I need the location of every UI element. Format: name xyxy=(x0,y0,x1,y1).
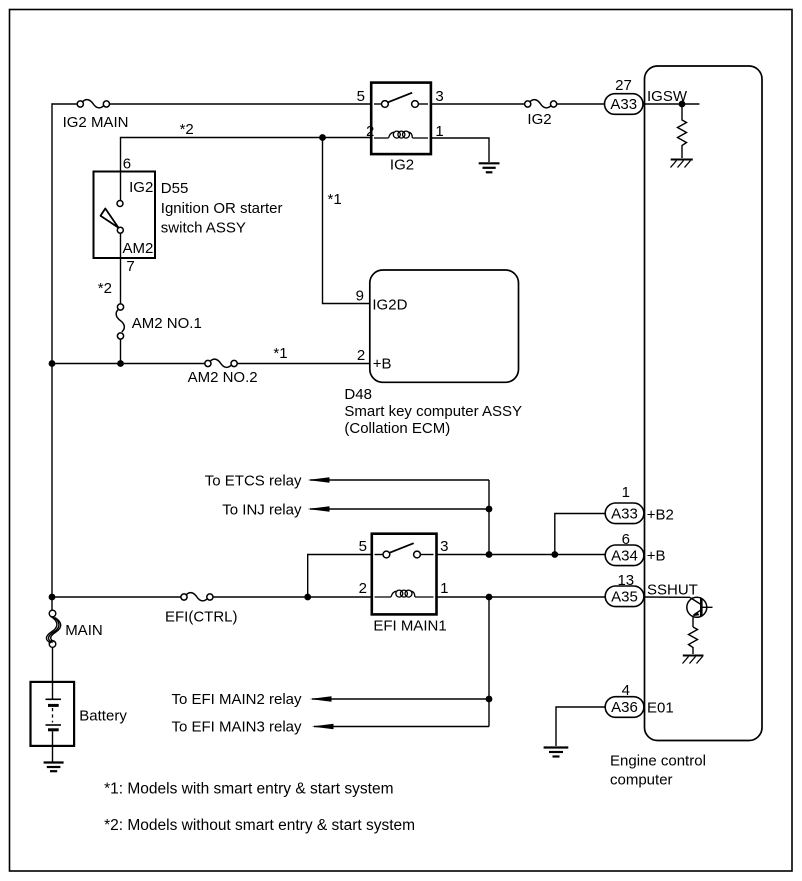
svg-text:AM2 NO.2: AM2 NO.2 xyxy=(188,369,258,386)
relay EFI MAIN1 blade xyxy=(389,543,413,553)
svg-text:*1: Models with smart entry &: *1: Models with smart entry & start syst… xyxy=(104,781,393,798)
wire: A35 to transistor xyxy=(644,596,690,598)
fuse AM2 NO.1 (vertical) xyxy=(116,304,124,339)
svg-text:*1: *1 xyxy=(273,345,287,362)
fuse AM2 NO.2 xyxy=(205,359,237,367)
wire: branch to pin 5 xyxy=(308,555,372,598)
svg-text:IG2: IG2 xyxy=(390,157,414,174)
svg-text:Smart key computer ASSY: Smart key computer ASSY xyxy=(344,403,522,420)
ground (earth) at relay IG2 xyxy=(479,163,500,172)
svg-text:5: 5 xyxy=(359,538,367,555)
svg-text:7: 7 xyxy=(126,258,134,275)
D55 switch contacts xyxy=(120,172,122,201)
svg-text:+B2: +B2 xyxy=(647,506,674,523)
connector A35 (SSHUT) xyxy=(605,586,644,607)
svg-text:A35: A35 xyxy=(611,589,638,606)
wire: vertical ETCS/INJ to pin3 xyxy=(488,480,490,555)
D48 box xyxy=(370,270,519,382)
node: *1 branch dot xyxy=(319,134,326,141)
svg-text:(Collation ECM): (Collation ECM) xyxy=(344,420,450,437)
svg-text:IG2: IG2 xyxy=(129,179,153,196)
battery internals xyxy=(52,682,54,699)
svg-text:To INJ relay: To INJ relay xyxy=(222,501,302,518)
svg-text:computer: computer xyxy=(610,772,673,789)
svg-text:MAIN: MAIN xyxy=(65,622,103,639)
node: pin5 branch xyxy=(304,594,311,601)
wire: EFI(CTRL) bus y=597 xyxy=(52,596,181,598)
wire: D55 pin7 down xyxy=(120,233,122,304)
svg-text:To ETCS relay: To ETCS relay xyxy=(205,472,302,489)
node: bus/EFI junction xyxy=(49,594,56,601)
svg-text:3: 3 xyxy=(435,88,443,105)
wire: relay pin3 to fuse IG2 xyxy=(431,103,525,105)
svg-text:IG2: IG2 xyxy=(527,111,551,128)
node: MAIN2 junction xyxy=(486,696,493,703)
wire: *2 horizontal y=137.5 xyxy=(121,138,372,172)
connector A34 (+B) xyxy=(605,545,644,566)
svg-text:D48: D48 xyxy=(344,386,372,403)
svg-text:9: 9 xyxy=(356,288,364,305)
svg-text:+B: +B xyxy=(373,356,392,373)
relay IG2 switch blade xyxy=(388,93,412,103)
ECU box (Engine control computer) xyxy=(645,66,763,741)
svg-text:1: 1 xyxy=(440,580,448,597)
wire: *1 vertical to D48 pin 9 xyxy=(323,138,370,304)
svg-text:1: 1 xyxy=(622,484,630,501)
fuse IG2 MAIN xyxy=(77,100,109,108)
node: IGSW resistor junction xyxy=(679,101,686,108)
transistor Q (SSHUT driver) xyxy=(687,597,713,617)
relay EFI MAIN1 contacts xyxy=(375,554,384,556)
relay IG2 switch contacts xyxy=(374,103,382,105)
battery box xyxy=(31,682,75,746)
transistor emitter arrow xyxy=(692,612,699,616)
fusible link MAIN xyxy=(46,597,60,647)
svg-text:Battery: Battery xyxy=(79,708,127,725)
svg-text:EFI MAIN1: EFI MAIN1 xyxy=(373,618,446,635)
wire: relay pin1 to ground xyxy=(431,138,489,162)
chassis ground (SSHUT) xyxy=(683,655,704,657)
D55 box xyxy=(94,172,156,259)
node: bus/AM2 junction xyxy=(49,360,56,367)
wire: A36 to ground xyxy=(556,707,605,746)
wire: +B2 branch up to A33 xyxy=(555,514,605,555)
svg-text:+B: +B xyxy=(647,548,666,565)
svg-text:IG2 MAIN: IG2 MAIN xyxy=(63,114,129,131)
relay EFI MAIN1 coil xyxy=(375,590,434,597)
connector A33 (IGSW) xyxy=(605,94,644,115)
connector A36 (E01) xyxy=(605,697,644,718)
node: +B2 branch xyxy=(551,551,558,558)
node: INJ junction xyxy=(486,506,493,513)
node: pin3/vertical junction xyxy=(486,551,493,558)
svg-text:AM2: AM2 xyxy=(122,240,153,257)
svg-text:A36: A36 xyxy=(611,699,638,716)
wire: top bus y=104 left of fuse xyxy=(52,103,77,105)
wire: bus y=363.5 xyxy=(52,363,205,365)
svg-text:3: 3 xyxy=(440,538,448,555)
relay IG2 coil xyxy=(374,131,428,138)
ground (earth) at battery xyxy=(44,763,64,772)
relay IG2 box xyxy=(371,83,431,155)
svg-text:*2: *2 xyxy=(98,280,112,297)
ground (earth) at E01 xyxy=(544,748,569,757)
svg-text:EFI(CTRL): EFI(CTRL) xyxy=(165,609,238,626)
svg-text:D55: D55 xyxy=(161,180,189,197)
svg-text:To EFI MAIN2 relay: To EFI MAIN2 relay xyxy=(171,691,302,708)
wire: pin1 to A35 xyxy=(437,596,606,598)
wire: fuse to connector A33 xyxy=(557,103,605,105)
svg-text:2: 2 xyxy=(366,123,374,140)
wire: fuse to relay pin2 xyxy=(213,596,372,598)
wire: pin3 to A34 xyxy=(437,554,606,556)
svg-text:Engine control: Engine control xyxy=(610,753,706,770)
wire: emitter down xyxy=(692,617,694,627)
node: AM2 NO.1 junction xyxy=(117,360,124,367)
connector A33 (+B2) xyxy=(605,503,644,524)
svg-text:IG2D: IG2D xyxy=(372,297,407,314)
wire: left bus vertical xyxy=(51,103,53,597)
svg-text:E01: E01 xyxy=(647,700,674,717)
svg-text:A34: A34 xyxy=(611,548,638,565)
svg-text:*2: *2 xyxy=(180,121,194,138)
svg-text:A33: A33 xyxy=(610,96,637,113)
wire: top bus y=104 fuse to relay xyxy=(109,103,371,105)
wire: fuse to bus xyxy=(120,339,122,364)
svg-text:A33: A33 xyxy=(611,506,638,523)
wire: fusible link to battery xyxy=(52,647,54,682)
resistor (IGSW pull) xyxy=(678,104,687,158)
svg-text:switch ASSY: switch ASSY xyxy=(161,219,246,236)
svg-text:To EFI MAIN3 relay: To EFI MAIN3 relay xyxy=(171,719,302,736)
svg-text:27: 27 xyxy=(615,77,632,94)
node: MAIN2/3 branch xyxy=(486,594,493,601)
svg-text:*2: Models without smart entry: *2: Models without smart entry & start s… xyxy=(104,817,415,834)
svg-text:2: 2 xyxy=(359,580,367,597)
svg-text:SSHUT: SSHUT xyxy=(647,581,698,598)
chassis ground (IGSW) xyxy=(671,159,693,161)
wire: fuse to D48 +B xyxy=(237,363,370,365)
svg-text:*1: *1 xyxy=(328,191,342,208)
relay EFI MAIN1 box xyxy=(372,534,437,615)
svg-text:5: 5 xyxy=(357,88,365,105)
fuse EFI(CTRL) xyxy=(181,593,213,601)
svg-text:Ignition OR starter: Ignition OR starter xyxy=(161,200,283,217)
svg-text:AM2 NO.1: AM2 NO.1 xyxy=(132,315,202,332)
D55 switch wedge xyxy=(101,209,119,228)
svg-text:2: 2 xyxy=(357,347,365,364)
wire: vertical to EFI MAIN2/3 xyxy=(488,597,490,727)
fuse IG2 xyxy=(525,100,557,108)
svg-text:6: 6 xyxy=(123,156,131,173)
resistor (SSHUT emitter) xyxy=(689,627,698,654)
wire: IGSW into ECU xyxy=(643,103,699,105)
